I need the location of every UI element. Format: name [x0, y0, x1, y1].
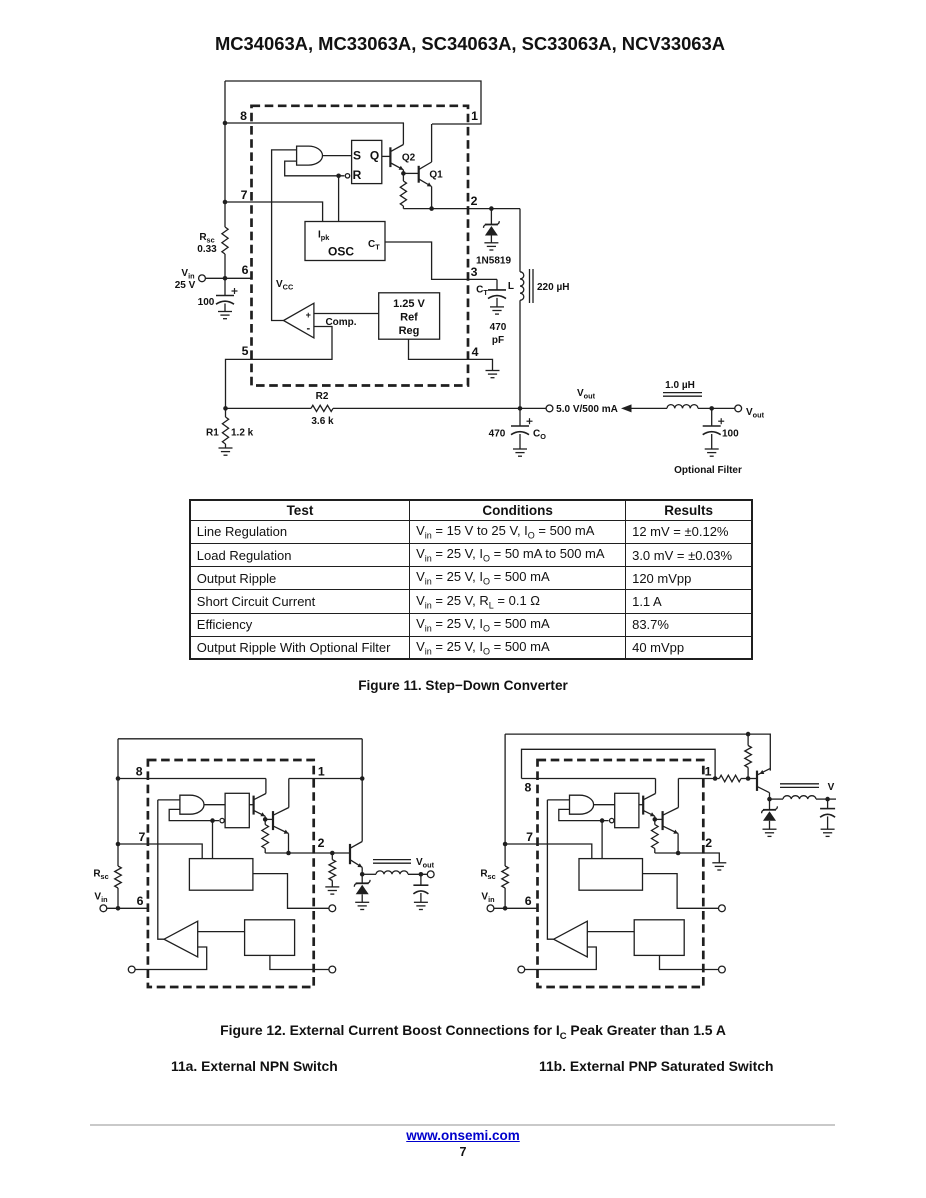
wire emitter to coil 11a	[362, 873, 376, 875]
svg-text:6: 6	[137, 894, 144, 908]
capacitor 100uF input	[224, 278, 226, 295]
junction Q1 emitter pin2	[429, 206, 434, 211]
svg-text:Rsc: Rsc	[480, 869, 495, 882]
wire Vin to pin6 11a	[107, 907, 149, 909]
svg-text:2: 2	[471, 194, 478, 208]
transistor driver internal	[253, 796, 255, 815]
svg-text:Vin: Vin	[181, 268, 194, 281]
svg-text:pF: pF	[492, 335, 504, 346]
ground filter cap	[705, 449, 719, 456]
wire Q1 base	[403, 172, 418, 174]
svg-text:25 V: 25 V	[175, 280, 196, 291]
inductor L 220uH	[519, 209, 521, 272]
wire top loop Vin rail to pin 1	[225, 81, 481, 124]
wire R2 to Vout node	[333, 407, 546, 409]
svg-text:Q: Q	[370, 149, 379, 163]
svg-text:1: 1	[318, 765, 325, 779]
wire ref to comparator plus	[314, 313, 379, 315]
svg-text:470: 470	[490, 322, 507, 333]
wire left Vin rail upper	[224, 81, 226, 227]
wire inner loop pin8 to pin1 11b	[522, 749, 716, 778]
wire AND top input	[547, 799, 569, 801]
terminal pin 5	[518, 966, 525, 973]
wire output node R2 rail	[226, 407, 312, 409]
wire stub output 11b	[828, 798, 836, 800]
wire driver emitter node	[654, 816, 656, 819]
wire top rail 11a	[118, 738, 362, 740]
svg-text:Vin: Vin	[94, 892, 107, 905]
junction output cap 11b	[825, 797, 830, 802]
block OSC	[305, 222, 385, 261]
svg-text:7: 7	[138, 830, 145, 844]
junction pin8 11a	[116, 776, 121, 781]
svg-text:1: 1	[471, 109, 478, 123]
wire Vin to pin 6	[206, 277, 252, 279]
ground output cap 11a	[414, 902, 428, 909]
ground Co	[513, 449, 527, 456]
wire right rail 11a	[361, 739, 363, 842]
wire AND output to S	[322, 155, 351, 157]
block reference internal	[245, 920, 295, 956]
wire pin2 to external base 11a	[314, 852, 350, 854]
svg-text:-: -	[306, 323, 310, 335]
svg-text:Q2: Q2	[402, 153, 416, 164]
wire arrow to filter coil	[631, 407, 667, 409]
wire switch collector to pin1 wire	[288, 779, 290, 808]
svg-text:Optional Filter: Optional Filter	[674, 465, 742, 476]
junction pin1 right rail 11a	[360, 776, 365, 781]
svg-text:2: 2	[705, 836, 712, 850]
wire pin7 to OSC	[505, 844, 592, 859]
wire ref to comparator plus internal	[587, 931, 634, 933]
footer page number	[0, 1145, 926, 1159]
svg-text:Vout: Vout	[416, 857, 435, 870]
resistor emitter-base pullup 11b	[747, 734, 749, 745]
wire driver collector to pin8 wire	[265, 779, 267, 794]
junction driver emitter	[263, 817, 268, 822]
wire switch collector to pin1 wire	[677, 779, 679, 808]
wire OSC to R line	[601, 821, 603, 859]
inductor 1.0uH filter	[667, 405, 698, 409]
resistor base series 11b	[719, 775, 741, 782]
AND gate internal	[570, 795, 594, 814]
transistor external NPN 11a	[349, 844, 351, 864]
capacitor output 11b	[827, 799, 829, 809]
terminal pin 3	[329, 905, 336, 912]
diode catch 11b	[769, 799, 771, 810]
inverter bubble	[220, 818, 224, 822]
transistor Q1 output switch	[418, 166, 420, 183]
junction PNP collector node 11b	[767, 797, 772, 802]
svg-text:L: L	[508, 281, 514, 292]
resistor internal emitter	[264, 819, 266, 824]
junction external base resistor 11a	[330, 851, 335, 856]
wire left Vin rail 11b	[504, 734, 506, 866]
wire pin2 internal	[655, 852, 704, 854]
wire pin3 to CT cap	[496, 279, 498, 290]
svg-text:VCC: VCC	[276, 279, 294, 292]
svg-text:220 µH: 220 µH	[537, 282, 569, 293]
svg-text:R: R	[353, 168, 362, 182]
svg-text:470: 470	[489, 429, 506, 440]
svg-text:Vout: Vout	[577, 388, 596, 401]
svg-text:CT: CT	[368, 239, 380, 252]
ground external base resistor 11a	[325, 887, 339, 894]
junction R line	[600, 818, 605, 823]
wire pin2 to ground 11b	[703, 853, 719, 863]
wire comparator minus to pin 5	[226, 327, 333, 409]
wire switch base	[655, 818, 663, 820]
IC internal block 11b	[505, 760, 725, 987]
svg-text:8: 8	[240, 109, 247, 123]
svg-text:1.0 µH: 1.0 µH	[665, 380, 695, 391]
terminal Vin 11a	[100, 905, 107, 912]
ground pin 4	[486, 371, 500, 378]
filter core bars	[663, 392, 702, 394]
wire comparator to AND vertical	[158, 800, 164, 939]
wire collector to coil 11b	[770, 798, 784, 800]
wire OSC to R input	[338, 176, 340, 222]
wire driver collector to pin8 wire	[655, 779, 657, 794]
junction switch emitter pin2	[286, 851, 291, 856]
wire coil to output 11b	[816, 798, 828, 800]
junction pin8 rail	[223, 121, 228, 126]
page title	[0, 33, 926, 55]
wire pin7 to OSC	[118, 844, 202, 859]
wire Rsc to Vin node 11a	[117, 888, 119, 908]
junction pin7 11a	[116, 842, 121, 847]
core bars 11b	[780, 783, 819, 785]
junction pullup resistor 11b	[746, 776, 751, 781]
svg-text:Rsc: Rsc	[93, 869, 108, 882]
resistor external base 11a	[331, 853, 333, 860]
junction divider node	[223, 406, 228, 411]
wire AND lower input loop	[169, 809, 219, 820]
wire ref out to pin4	[660, 955, 719, 969]
AND gate	[297, 146, 323, 165]
capacitor output 11a	[420, 874, 422, 885]
wire base resistor to PNP base 11b	[741, 778, 757, 780]
figure 11a external NPN switch schematic	[93, 739, 434, 987]
wire Vin to pin6 11b	[494, 907, 539, 909]
svg-text:Rsc: Rsc	[199, 232, 214, 245]
wire pin2 internal	[265, 852, 314, 854]
svg-text:1.25 V: 1.25 V	[393, 298, 425, 310]
wire Q1 collector to pin 1	[431, 124, 433, 162]
junction pin6 11b	[503, 906, 508, 911]
resistor Rsc 11b	[502, 866, 509, 888]
comparator internal	[554, 921, 588, 957]
ground R1	[219, 448, 233, 455]
resistor R2 3.6k	[311, 405, 333, 411]
svg-text:7: 7	[526, 830, 533, 844]
wire external emitter node 11a	[361, 867, 363, 874]
inverter bubble	[610, 818, 614, 822]
wire pin8 11b	[522, 778, 656, 780]
svg-text:5.0 V/500 mA: 5.0 V/500 mA	[556, 404, 618, 415]
ground diode 11a	[355, 902, 369, 909]
svg-text:Reg: Reg	[399, 325, 420, 337]
junction R line OSC	[336, 174, 341, 179]
caption figure 11	[0, 678, 926, 693]
resistor Rsc	[222, 227, 228, 254]
wire Q1 emitter to pin 2	[431, 187, 433, 209]
junction top rail resistor 11b	[746, 732, 751, 737]
wire driver base	[249, 804, 253, 806]
inductor output 11b	[783, 796, 816, 799]
core bars 11a	[373, 859, 411, 861]
footer rule	[90, 1124, 835, 1127]
wire pin1 11b	[678, 778, 719, 780]
svg-text:4: 4	[472, 345, 479, 359]
wire OSC out to pin3	[643, 874, 719, 909]
wire switch emitter to pin2 wire	[288, 834, 290, 854]
transistor switch internal	[272, 811, 274, 830]
transistor driver internal	[642, 796, 644, 815]
svg-text:3.6 k: 3.6 k	[311, 416, 334, 427]
svg-text:3: 3	[471, 265, 478, 279]
footer link	[0, 1128, 926, 1143]
terminal pin 4	[329, 966, 336, 973]
svg-text:1.2 k: 1.2 k	[231, 428, 254, 439]
terminal Vout 11a	[427, 871, 434, 878]
capacitor CT 470pF	[488, 289, 506, 291]
svg-text:Q1: Q1	[429, 170, 443, 181]
junction inner loop pin1 11b	[713, 776, 718, 781]
comparator	[284, 303, 314, 338]
svg-text:CT: CT	[476, 285, 488, 298]
wire AND top input from comparator	[272, 150, 297, 321]
inductor output 11a	[376, 871, 408, 874]
IC dashed box	[538, 760, 704, 987]
block OSC internal	[189, 859, 253, 891]
svg-text:Ipk: Ipk	[318, 230, 330, 243]
svg-text:OSC: OSC	[328, 245, 354, 259]
resistor Rsc 11a	[115, 866, 122, 888]
ground diode 11b	[763, 829, 777, 836]
svg-text:6: 6	[242, 263, 249, 277]
capacitor Co output	[519, 408, 521, 426]
IC dashed box MC34063A	[252, 106, 469, 386]
terminal Vin 11b	[487, 905, 494, 912]
inductor core bars	[529, 269, 531, 303]
wire coil to Vout 11a	[408, 873, 427, 875]
block reference internal	[634, 920, 684, 956]
svg-text:2: 2	[318, 836, 325, 850]
wire Q output to Q2 base	[382, 155, 391, 157]
wire switch emitter to pin2 wire	[677, 834, 679, 854]
svg-text:100: 100	[198, 297, 215, 308]
results table	[189, 499, 753, 661]
wire AND lower input loop	[285, 161, 345, 176]
transistor switch internal	[661, 811, 663, 830]
junction Q2 emitter Q1 base	[401, 171, 406, 176]
wire switch base	[265, 818, 273, 820]
caption figure 12	[0, 1022, 926, 1042]
AND gate internal	[180, 795, 204, 814]
junction driver emitter	[653, 817, 658, 822]
svg-text:5: 5	[242, 344, 249, 358]
wire AND output	[594, 804, 615, 806]
junction pin7 11b	[503, 842, 508, 847]
wire ref to comparator plus internal	[198, 931, 245, 933]
svg-text:1: 1	[705, 765, 712, 779]
wire CT output to pin 3	[385, 242, 497, 279]
junction diode tap	[489, 206, 494, 211]
wire pin8 11a	[118, 778, 266, 780]
wire OSC out to pin3	[253, 874, 329, 909]
latch box S R Q	[352, 140, 382, 183]
wire AND output	[204, 804, 225, 806]
wire driver base	[639, 804, 643, 806]
terminal pin 5	[128, 966, 135, 973]
wire filter coil to Vout terminal	[698, 407, 735, 409]
terminal Vin input	[199, 275, 206, 282]
resistor R1 1.2k	[225, 408, 227, 417]
wire comparator minus to pin5	[135, 947, 207, 970]
svg-text:0.33: 0.33	[197, 244, 217, 255]
wire pin 8	[225, 122, 404, 124]
ground output cap 11b	[821, 829, 835, 836]
junction Vin node	[223, 276, 228, 281]
ground CT cap	[490, 307, 504, 314]
diode 1N5819 catch	[490, 209, 492, 225]
terminal Vout	[546, 405, 553, 412]
wire ref output to pin 4	[409, 339, 493, 370]
terminal Vout filtered	[735, 405, 742, 412]
svg-text:+: +	[306, 310, 311, 320]
wire pin1 11a	[289, 778, 362, 780]
svg-text:R2: R2	[316, 391, 329, 402]
diode catch 11a	[361, 874, 363, 883]
terminal pin 3	[719, 905, 726, 912]
ground input cap	[218, 312, 232, 319]
wire Q2 emitter to node	[402, 170, 404, 174]
wire AND top input	[158, 799, 180, 801]
IC dashed box	[148, 760, 314, 987]
resistor Q2 emitter to pin2	[402, 173, 404, 181]
figure 11b external PNP saturated switch schematic	[480, 732, 836, 987]
wire pin 7	[225, 202, 323, 222]
wire top outer rail 11b	[505, 734, 770, 771]
wire OSC to R line	[212, 821, 214, 859]
svg-text:Ref: Ref	[400, 312, 418, 324]
wire comparator minus to pin5	[525, 947, 597, 970]
svg-text:100: 100	[722, 429, 739, 440]
wire comparator to AND vertical	[547, 800, 553, 939]
caption 11a	[171, 1058, 338, 1074]
svg-text:S: S	[353, 149, 361, 163]
wire AND lower input loop	[559, 809, 609, 820]
capacitor 100 filter	[711, 408, 713, 426]
junction pin7 rail	[223, 200, 228, 205]
inverter bubble R input	[345, 174, 349, 178]
svg-text:1N5819: 1N5819	[476, 256, 511, 267]
wire left Vin rail 11a upper	[117, 739, 119, 866]
wire ref out to pin4	[270, 955, 329, 969]
junction pin6 11a	[116, 906, 121, 911]
svg-text:CO: CO	[533, 429, 546, 442]
arrow filter input	[621, 404, 632, 412]
svg-text:8: 8	[524, 781, 531, 795]
block OSC internal	[579, 859, 643, 891]
wire driver emitter node	[264, 816, 266, 819]
wire left Vin rail Rsc to pin6 node	[224, 254, 226, 279]
block 1.25V reference	[379, 293, 440, 339]
junction R line	[210, 818, 215, 823]
svg-text:V: V	[828, 782, 835, 793]
svg-text:8: 8	[136, 765, 143, 779]
svg-text:Vin: Vin	[481, 892, 494, 905]
wire Q2 collector to pin8 wire	[402, 123, 404, 145]
svg-text:Vout: Vout	[746, 407, 765, 420]
junction Vout node	[518, 406, 523, 411]
ground diode	[484, 243, 498, 250]
terminal pin 4	[719, 966, 726, 973]
svg-text:7: 7	[241, 188, 248, 202]
junction switch emitter pin2	[676, 851, 681, 856]
svg-text:6: 6	[525, 894, 532, 908]
caption 11b	[539, 1058, 773, 1074]
latch box	[615, 793, 639, 827]
svg-text:R1: R1	[206, 428, 219, 439]
ground pin2 11b	[712, 863, 726, 870]
junction external emitter 11a	[360, 872, 365, 877]
resistor internal emitter	[654, 819, 656, 824]
wire Rsc to Vin node 11b	[504, 888, 506, 908]
wire pin 2	[403, 208, 520, 210]
comparator internal	[164, 921, 198, 957]
transistor external PNP 11b	[756, 771, 758, 791]
latch box	[225, 793, 249, 827]
transistor Q2 driver	[389, 147, 391, 167]
junction output cap 11a	[419, 872, 424, 877]
IC internal block 11a	[118, 760, 336, 987]
junction filter cap	[709, 406, 714, 411]
figure 11 step-down converter schematic	[175, 81, 765, 476]
